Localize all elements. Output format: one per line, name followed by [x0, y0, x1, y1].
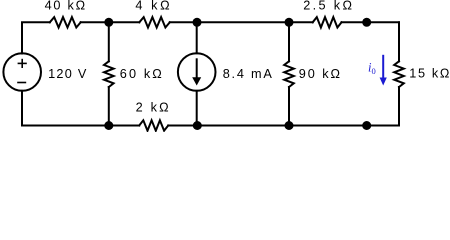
resistor R 60k zigzag: [104, 61, 114, 87]
wire 60k branch upper lead: [108, 22, 110, 61]
wire right branch upper lead: [398, 22, 400, 61]
svg-text:40 kΩ: 40 kΩ: [45, 0, 86, 13]
node dot bottom current source: [193, 121, 202, 130]
current arrow i0: [380, 55, 387, 86]
wire top between 4k and 2.5k: [170, 21, 313, 23]
wire 90k branch lower lead: [288, 87, 290, 126]
resistor R 2k zigzag: [139, 120, 168, 130]
wire top left segment: [22, 22, 50, 53]
wire current source top lead: [196, 22, 198, 53]
resistor R 2.5k zigzag: [313, 17, 342, 27]
wire bottom right segment: [168, 125, 399, 127]
wire 90k branch upper lead: [288, 22, 290, 61]
wire voltage source bottom lead: [21, 91, 23, 126]
node dot top current source: [193, 18, 202, 27]
wire right branch lower lead: [398, 87, 400, 126]
svg-text:2.5 kΩ: 2.5 kΩ: [303, 0, 352, 13]
svg-text:8.4 mA: 8.4 mA: [223, 67, 273, 81]
node dot bottom i0: [362, 121, 371, 130]
resistor R 90k zigzag: [284, 61, 294, 87]
wire top between 40k and 4k: [81, 21, 140, 23]
wire top right segment: [342, 21, 400, 23]
wire 60k branch lower lead: [108, 87, 110, 126]
wire bottom left segment: [22, 125, 139, 127]
current source I1 circle: [178, 53, 216, 91]
resistor R 40k zigzag: [50, 17, 81, 27]
node dot top i0: [362, 18, 371, 27]
resistor R 4k zigzag: [139, 17, 170, 27]
svg-text:60 kΩ: 60 kΩ: [120, 67, 162, 81]
current source arrow: [192, 58, 201, 85]
svg-text:i0: i0: [368, 60, 376, 76]
wire current source bottom lead: [196, 91, 198, 126]
svg-text:15 kΩ: 15 kΩ: [409, 66, 449, 80]
svg-text:90 kΩ: 90 kΩ: [299, 67, 340, 81]
node dot bottom 90k: [285, 121, 294, 130]
svg-text:120 V: 120 V: [48, 67, 87, 81]
voltage source minus sign: [17, 82, 26, 84]
node dot top 60k: [104, 18, 113, 27]
voltage source plus sign: [18, 59, 27, 68]
svg-text:4 kΩ: 4 kΩ: [135, 0, 169, 13]
resistor R 15k zigzag: [394, 61, 404, 87]
svg-text:2 kΩ: 2 kΩ: [136, 101, 169, 115]
node dot top 90k: [285, 18, 294, 27]
node dot bottom 60k: [104, 121, 113, 130]
voltage source V1 circle: [3, 53, 41, 91]
